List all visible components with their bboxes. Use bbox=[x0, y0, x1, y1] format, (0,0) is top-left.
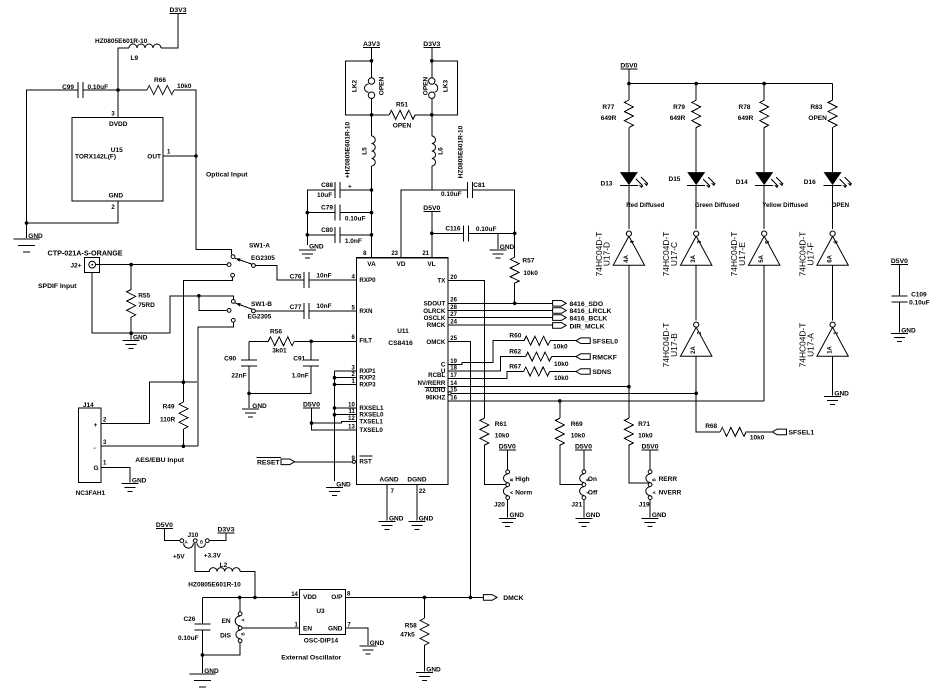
svg-text:R60: R60 bbox=[509, 333, 521, 340]
svg-text:R69: R69 bbox=[571, 421, 583, 428]
svg-text:8416_LRCLK: 8416_LRCLK bbox=[570, 308, 612, 315]
svg-text:RESET: RESET bbox=[257, 459, 281, 466]
resistor R69 bbox=[559, 401, 561, 418]
wire U3 GND pin 7 to ground bbox=[345, 628, 368, 645]
svg-text:1A: 1A bbox=[828, 345, 834, 353]
svg-text:0.10uF: 0.10uF bbox=[909, 300, 930, 307]
pin RST overline bbox=[359, 455, 372, 457]
svg-text:TXSEL1: TXSEL1 bbox=[359, 418, 383, 425]
svg-text:SW1-A: SW1-A bbox=[249, 243, 270, 250]
node R55 bottom junction bbox=[129, 331, 133, 335]
wire C pin 19 to R60 bbox=[448, 341, 524, 365]
svg-text:OPEN: OPEN bbox=[832, 202, 850, 209]
svg-text:FILT: FILT bbox=[359, 337, 372, 344]
svg-text:GND: GND bbox=[901, 328, 916, 335]
svg-text:C79: C79 bbox=[321, 205, 333, 212]
tag RMCKF bbox=[576, 354, 590, 360]
inverter U17-E bbox=[749, 236, 780, 265]
svg-text:DVDD: DVDD bbox=[109, 121, 128, 128]
node LK3 top junction bbox=[430, 59, 434, 63]
capacitor C99 bbox=[77, 82, 79, 98]
switch SW1-B EG2305 bbox=[231, 300, 235, 304]
svg-text:R83: R83 bbox=[810, 104, 822, 111]
resistor R66 bbox=[118, 89, 147, 91]
svg-text:OUT: OUT bbox=[147, 154, 161, 161]
wire D5V0 to J19 bbox=[649, 450, 651, 470]
svg-text:10nF: 10nF bbox=[316, 273, 331, 280]
node filter ground junction bbox=[247, 392, 251, 396]
jumper EN/DIS bbox=[238, 612, 242, 616]
wire D5V0 to J10 bbox=[164, 529, 180, 541]
svg-text:+5V: +5V bbox=[173, 553, 185, 560]
wire J10 to L2 bbox=[195, 543, 209, 572]
tag SDNS bbox=[576, 369, 590, 375]
svg-text:L6: L6 bbox=[437, 147, 444, 155]
svg-text:D5V0: D5V0 bbox=[641, 444, 658, 451]
svg-text:GND: GND bbox=[204, 668, 219, 675]
svg-text:10k0: 10k0 bbox=[523, 270, 538, 277]
nodes VDD junctions bbox=[238, 596, 242, 600]
capacitor C80 bbox=[334, 227, 336, 243]
resistor R61 bbox=[480, 418, 489, 445]
wire D3V3 down bbox=[431, 48, 433, 79]
nodes input bus junctions bbox=[333, 376, 337, 380]
jumper J10 +5V/+3.3V select bbox=[180, 539, 184, 543]
wire SW1-A AES contact down bbox=[184, 277, 233, 382]
svg-text:GND: GND bbox=[336, 482, 351, 489]
wire SW1-B to C77 bbox=[255, 310, 304, 312]
wire U17-A input to ground bbox=[832, 356, 834, 395]
wire LK2 bypass loop bbox=[345, 61, 371, 115]
ground (U15) bbox=[26, 223, 28, 238]
wire C116 right bbox=[469, 232, 515, 234]
capacitor C116 bbox=[432, 232, 464, 234]
pin AGND DGND labels bbox=[379, 476, 426, 495]
svg-text:J2+: J2+ bbox=[70, 262, 81, 269]
wire R69 to J21 bbox=[560, 445, 582, 484]
svg-text:8416_SDO: 8416_SDO bbox=[570, 301, 604, 308]
svg-text:10nF: 10nF bbox=[316, 303, 331, 310]
wire C90 to ground node bbox=[248, 366, 250, 393]
wire RCBL pin 17 to R67 bbox=[448, 372, 524, 379]
svg-text:DMCK: DMCK bbox=[503, 595, 523, 602]
svg-text:-: - bbox=[94, 445, 96, 452]
svg-text:10k0: 10k0 bbox=[495, 433, 510, 440]
svg-text:A: A bbox=[241, 618, 246, 621]
wire C99 right plate to node bbox=[83, 89, 118, 91]
wire RESET to RST pin 9 bbox=[295, 461, 353, 463]
svg-text:GND: GND bbox=[109, 193, 124, 200]
svg-text:NVERR: NVERR bbox=[659, 490, 682, 497]
wire C99 left plate to ground rail bbox=[27, 90, 79, 223]
wire VD pin 23 bbox=[401, 190, 432, 258]
svg-text:OSC-DIP14: OSC-DIP14 bbox=[304, 637, 339, 644]
svg-text:RXP3: RXP3 bbox=[359, 381, 376, 388]
svg-text:R62: R62 bbox=[509, 349, 521, 356]
svg-text:J20: J20 bbox=[494, 501, 505, 508]
wire U15 GND pin 2 to ground bbox=[27, 201, 119, 223]
wire R60 to tag bbox=[550, 340, 576, 342]
svg-text:R51: R51 bbox=[396, 102, 408, 109]
svg-text:G: G bbox=[94, 465, 99, 472]
svg-text:U3: U3 bbox=[316, 608, 325, 615]
wire J14 pin 3 bbox=[101, 445, 198, 447]
svg-text:SW1-B: SW1-B bbox=[251, 301, 272, 308]
wire SW1-B AES contact down bbox=[198, 322, 233, 446]
svg-text:2A: 2A bbox=[691, 345, 697, 353]
wire D13 cathode bbox=[628, 185, 630, 229]
svg-text:75RD: 75RD bbox=[138, 302, 155, 309]
svg-text:8416_BCLK: 8416_BCLK bbox=[570, 315, 608, 322]
jumper J19 bbox=[648, 470, 652, 474]
svg-text:U17-F: U17-F bbox=[805, 242, 815, 265]
tag DMCK bbox=[483, 595, 497, 601]
LED D15 Green Diffused bbox=[687, 172, 705, 185]
svg-text:10k0: 10k0 bbox=[554, 375, 569, 382]
svg-text:SDNS: SDNS bbox=[592, 369, 611, 376]
wire L9 to DVDD node bbox=[118, 48, 129, 117]
jumper LK2 OPEN bbox=[368, 78, 374, 84]
svg-text:U17-D: U17-D bbox=[602, 242, 612, 266]
wire SDOUT pin 26 bbox=[448, 302, 553, 304]
svg-text:CS8416: CS8416 bbox=[388, 340, 413, 347]
wire DGND pin 22 to ground bbox=[416, 485, 418, 521]
svg-text:A: A bbox=[509, 491, 514, 494]
svg-text:B: B bbox=[200, 539, 203, 544]
inductor L9 bbox=[129, 44, 161, 48]
svg-text:47k5: 47k5 bbox=[400, 632, 415, 639]
svg-text:OLRCK: OLRCK bbox=[423, 308, 446, 315]
svg-text:C109: C109 bbox=[911, 292, 927, 299]
svg-text:J14: J14 bbox=[83, 402, 94, 409]
svg-text:EN: EN bbox=[303, 626, 312, 633]
svg-text:21: 21 bbox=[422, 251, 429, 257]
svg-text:10k0: 10k0 bbox=[750, 435, 765, 442]
svg-text:+: + bbox=[348, 184, 352, 191]
svg-text:NC3FAH1: NC3FAH1 bbox=[76, 490, 106, 497]
wire OSCLK pin 27 bbox=[448, 317, 553, 319]
svg-text:EG2305: EG2305 bbox=[251, 255, 275, 262]
svg-text:D14: D14 bbox=[736, 179, 748, 186]
svg-text:1.0nF: 1.0nF bbox=[345, 238, 362, 245]
node 96KHZ junction bbox=[558, 399, 562, 403]
wire A3V3 down bbox=[371, 48, 373, 79]
svg-text:RMCK: RMCK bbox=[427, 322, 446, 329]
svg-text:D5V0: D5V0 bbox=[891, 258, 908, 265]
svg-text:2: 2 bbox=[697, 332, 703, 335]
svg-text:R61: R61 bbox=[495, 421, 507, 428]
wire U17-D output to NV/RERR bbox=[628, 265, 630, 387]
svg-text:22nF: 22nF bbox=[231, 373, 246, 380]
LED D16 OPEN bbox=[824, 172, 842, 185]
wire SW1-A to C76 bbox=[255, 266, 304, 281]
wire DIS jumper to EN pin 1 bbox=[242, 627, 300, 629]
wire to TXSEL0 pin 13 bbox=[312, 423, 357, 430]
pin 15 AUDIO bubble bbox=[448, 392, 451, 395]
inverter U17-A bbox=[817, 327, 848, 356]
node SDOUT pullup junction bbox=[513, 302, 517, 306]
node R58 junction bbox=[423, 596, 427, 600]
node R49 top junction bbox=[182, 380, 186, 384]
wire C26 to ground node bbox=[201, 630, 203, 655]
wire OMCK pin 25 to oscillator bbox=[448, 342, 470, 598]
svg-text:J19: J19 bbox=[639, 501, 650, 508]
optical receiver U15 bbox=[72, 117, 163, 201]
wire U3 O/P pin 8 to DMCK bbox=[345, 596, 483, 598]
svg-text:U17-C: U17-C bbox=[669, 242, 679, 266]
svg-text:GND: GND bbox=[419, 515, 434, 522]
svg-text:TXSEL0: TXSEL0 bbox=[359, 427, 383, 434]
wire R67 to tag bbox=[550, 371, 576, 373]
svg-text:D3V3: D3V3 bbox=[217, 527, 234, 534]
wire OLRCK pin 28 bbox=[448, 310, 553, 312]
inductor L2 bbox=[209, 568, 240, 572]
svg-text:+3.3V: +3.3V bbox=[204, 553, 222, 560]
svg-text:3k01: 3k01 bbox=[272, 348, 287, 355]
node VA filter junction bbox=[370, 188, 374, 192]
svg-text:J21: J21 bbox=[571, 501, 582, 508]
capacitor C88 10uF bbox=[334, 182, 336, 198]
svg-text:96KHZ: 96KHZ bbox=[426, 394, 446, 401]
svg-text:VA: VA bbox=[367, 261, 376, 268]
wire ground node to DIS jumper bbox=[202, 643, 240, 655]
wire D3V3 to J10 bbox=[209, 533, 226, 541]
svg-text:D5V0: D5V0 bbox=[575, 444, 592, 451]
svg-text:C90: C90 bbox=[224, 356, 236, 363]
switch SW1-A EG2305 bbox=[231, 255, 235, 259]
svg-text:23: 23 bbox=[391, 251, 398, 257]
resistor R77 bbox=[628, 84, 630, 101]
svg-text:L5: L5 bbox=[361, 147, 368, 155]
svg-text:U17-E: U17-E bbox=[737, 242, 747, 266]
wire D5V0 to J21 bbox=[583, 450, 585, 470]
ground (C26) bbox=[201, 655, 203, 673]
bus wire unused inputs to ground bbox=[334, 371, 336, 481]
svg-text:Green Diffused: Green Diffused bbox=[695, 202, 740, 209]
svg-text:GND: GND bbox=[652, 512, 667, 519]
svg-text:DGND: DGND bbox=[407, 476, 426, 483]
svg-text:C91: C91 bbox=[293, 356, 305, 363]
wire U17-B input to AUDIO bbox=[695, 356, 697, 393]
wire RXP1 pin 3 bus bbox=[335, 370, 357, 372]
svg-text:C77: C77 bbox=[290, 304, 302, 311]
svg-text:VDD: VDD bbox=[303, 594, 317, 601]
wire D5V0 to TXSEL1 pin 12 bbox=[312, 408, 357, 423]
wire C76 to RXP0 pin 4 bbox=[309, 279, 357, 281]
inverter U17-F bbox=[817, 236, 848, 265]
inductor L6 bbox=[431, 98, 433, 114]
svg-text:0.10uF: 0.10uF bbox=[476, 226, 497, 233]
svg-text:GND: GND bbox=[133, 334, 148, 341]
svg-text:GND: GND bbox=[132, 477, 147, 484]
svg-text:HZ0805E601R-10: HZ0805E601R-10 bbox=[457, 125, 464, 178]
svg-text:C26: C26 bbox=[183, 616, 195, 623]
wire C109 to ground bbox=[898, 302, 900, 333]
resistor R83 bbox=[832, 84, 834, 101]
svg-text:1.0nF: 1.0nF bbox=[292, 373, 309, 380]
svg-text:D15: D15 bbox=[669, 176, 681, 183]
svg-text:GND: GND bbox=[252, 403, 267, 410]
svg-text:649R: 649R bbox=[601, 115, 617, 122]
svg-text:R71: R71 bbox=[638, 421, 650, 428]
svg-text:Off: Off bbox=[588, 490, 598, 497]
pin AUDIO overline bbox=[425, 386, 446, 388]
svg-text:SDOUT: SDOUT bbox=[424, 301, 446, 308]
svg-text:6A: 6A bbox=[828, 254, 834, 262]
svg-text:10k0: 10k0 bbox=[553, 344, 568, 351]
tag SFSEL1 bbox=[772, 429, 786, 435]
svg-text:GND: GND bbox=[834, 390, 849, 397]
IC U11 CS8416 bbox=[357, 258, 448, 485]
svg-text:RERR: RERR bbox=[659, 476, 678, 483]
tag 8416_BCLK bbox=[553, 315, 567, 321]
svg-text:D5V0: D5V0 bbox=[620, 63, 637, 70]
svg-text:OPEN: OPEN bbox=[379, 76, 386, 95]
node SW1-B branch junction bbox=[197, 294, 201, 298]
svg-text:C81: C81 bbox=[473, 182, 485, 189]
wire LED supply rail bbox=[629, 83, 833, 85]
wire SW1-B contact to SPDIF node bbox=[199, 296, 227, 311]
svg-text:10k0: 10k0 bbox=[177, 83, 192, 90]
ground (AGND) bbox=[379, 521, 396, 523]
tag 8416_LRCLK bbox=[553, 308, 567, 314]
resistor R60 bbox=[524, 336, 550, 345]
node R49 bottom junction bbox=[182, 444, 186, 448]
svg-text:On: On bbox=[588, 476, 597, 483]
svg-text:14: 14 bbox=[291, 592, 298, 598]
svg-text:L9: L9 bbox=[131, 55, 139, 62]
node C116 left junction bbox=[430, 232, 434, 236]
resistor R67 bbox=[524, 367, 550, 376]
wire C81 to ground node bbox=[473, 190, 515, 233]
wire R57 to SDOUT bbox=[514, 283, 516, 303]
svg-text:10k0: 10k0 bbox=[554, 361, 569, 368]
svg-text:RCBL: RCBL bbox=[428, 372, 445, 379]
svg-text:EG2305: EG2305 bbox=[248, 314, 272, 321]
svg-text:R58: R58 bbox=[405, 623, 417, 630]
svg-text:C80: C80 bbox=[321, 227, 333, 234]
node DVDD junction bbox=[116, 88, 120, 92]
svg-text:0.10uF: 0.10uF bbox=[178, 635, 199, 642]
inductor L5 bbox=[371, 98, 373, 114]
resistor R62 bbox=[526, 352, 552, 361]
svg-text:J10: J10 bbox=[188, 532, 199, 539]
resistor R51 OPEN bbox=[372, 114, 390, 116]
svg-text:R77: R77 bbox=[602, 104, 614, 111]
capacitor C76 bbox=[303, 272, 305, 288]
svg-text:DIS: DIS bbox=[220, 633, 232, 640]
svg-text:R79: R79 bbox=[673, 104, 685, 111]
connector J2 SPDIF jack bbox=[85, 258, 100, 273]
ground (J19) bbox=[642, 517, 659, 519]
resistor R55 bbox=[130, 265, 132, 290]
svg-text:D5V0: D5V0 bbox=[423, 205, 440, 212]
ground (J21) bbox=[575, 517, 592, 519]
svg-text:VD: VD bbox=[396, 261, 405, 268]
svg-text:SFSEL1: SFSEL1 bbox=[789, 430, 815, 437]
svg-text:OSCLK: OSCLK bbox=[424, 315, 446, 322]
wire C88 left to ground rail bbox=[307, 190, 335, 245]
svg-text:GND: GND bbox=[389, 515, 404, 522]
ground (analog filter) bbox=[299, 249, 316, 251]
wire RMCK pin 24 bbox=[448, 324, 553, 326]
capacitor C79 bbox=[334, 205, 336, 221]
resistor R79 bbox=[695, 84, 697, 101]
jumper LK3 OPEN bbox=[429, 78, 435, 84]
wire J20 to ground bbox=[507, 499, 509, 517]
jumper J20 bbox=[506, 470, 510, 474]
svg-text:U17-B: U17-B bbox=[669, 333, 679, 357]
inverter U17-D bbox=[613, 236, 644, 265]
wire D5V0 to VL pin 21 bbox=[431, 212, 433, 258]
svg-text:3A: 3A bbox=[691, 254, 697, 262]
wire RXSEL0 pin 11 bbox=[335, 414, 357, 416]
resistor R58 bbox=[424, 597, 426, 618]
pin labels U11 right bbox=[417, 275, 457, 402]
wire VA pin 8 bbox=[371, 190, 373, 258]
node C116 right junction bbox=[513, 232, 517, 236]
wire AUDIO to R68 bbox=[696, 393, 720, 432]
wire U17-F output to U17-A bbox=[832, 265, 834, 320]
wire RXP2 pin 2 bbox=[335, 377, 357, 379]
wire AGND pin 7 to ground bbox=[386, 485, 388, 521]
wire R56 to FILT pin 6 bbox=[294, 340, 356, 342]
capacitor C77 bbox=[303, 303, 305, 319]
svg-text:OMCK: OMCK bbox=[426, 339, 445, 346]
svg-text:DIR_MCLK: DIR_MCLK bbox=[570, 323, 605, 330]
wire J21 to ground bbox=[583, 499, 585, 517]
LED D14 Yellow Diffused bbox=[755, 172, 773, 185]
svg-text:+: + bbox=[94, 422, 98, 429]
svg-text:+HZ0805E601R-10: +HZ0805E601R-10 bbox=[345, 122, 352, 179]
ground (J2/R55) bbox=[130, 333, 132, 339]
wire LK3 bypass loop bbox=[432, 61, 458, 115]
svg-text:SPDIF Input: SPDIF Input bbox=[38, 283, 77, 290]
svg-text:R67: R67 bbox=[509, 363, 521, 370]
svg-text:VL: VL bbox=[427, 261, 435, 268]
svg-text:HZ0805E601R-10: HZ0805E601R-10 bbox=[188, 582, 241, 589]
node NV/RERR junction bbox=[627, 385, 631, 389]
node R55 top junction bbox=[129, 263, 133, 267]
node AUDIO junction bbox=[694, 392, 698, 396]
node OMCK junction bbox=[469, 596, 473, 600]
wire VDD node to DIS jumper top bbox=[239, 597, 241, 612]
node L6 top junction bbox=[430, 113, 434, 117]
resistor R71 bbox=[628, 387, 630, 419]
svg-text:D3V3: D3V3 bbox=[423, 41, 440, 48]
wire J2 signal to SW1-A bbox=[96, 264, 228, 266]
svg-text:R78: R78 bbox=[739, 104, 751, 111]
node C79 junctions bbox=[306, 211, 310, 215]
svg-text:0.10uF: 0.10uF bbox=[345, 216, 366, 223]
node FILT junction bbox=[309, 340, 313, 344]
jumper J21 bbox=[582, 470, 586, 474]
wire R61 to J20 bbox=[484, 445, 506, 484]
svg-text:Optical Input: Optical Input bbox=[206, 172, 248, 179]
svg-text:U11: U11 bbox=[397, 328, 409, 335]
svg-text:10k0: 10k0 bbox=[571, 433, 586, 440]
node C26 ground junction bbox=[201, 653, 205, 657]
svg-text:B: B bbox=[652, 478, 657, 481]
inverter U17-C bbox=[681, 236, 712, 265]
svg-text:R49: R49 bbox=[163, 404, 175, 411]
wire C88 to rail bbox=[340, 189, 371, 191]
wire NV/RERR pin 14 bbox=[448, 386, 629, 388]
capacitor C90 bbox=[248, 341, 250, 360]
ground (R58) bbox=[416, 672, 433, 674]
wire RXP3 pin 1 bbox=[335, 383, 357, 385]
svg-text:B: B bbox=[241, 632, 246, 635]
